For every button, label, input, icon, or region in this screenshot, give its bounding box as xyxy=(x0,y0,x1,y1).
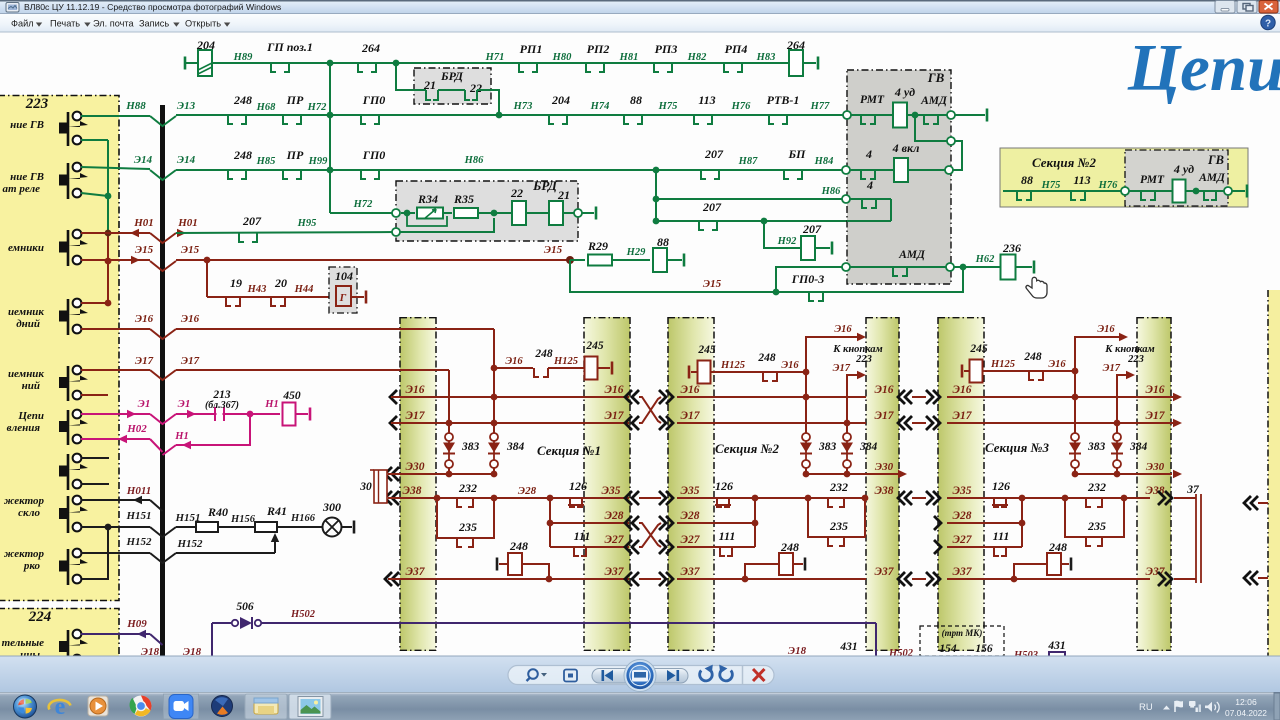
svg-text:Э14: Э14 xyxy=(177,154,196,166)
node 506 label xyxy=(236,601,254,613)
svg-text:(трт МК): (трт МК) xyxy=(942,628,983,638)
taskbar icon Chrome xyxy=(130,696,152,717)
svg-text:R41: R41 xyxy=(266,504,287,518)
junction 207 row x764 xyxy=(761,218,768,225)
svg-text:РП2: РП2 xyxy=(587,42,610,56)
loop 235 section3 xyxy=(1065,498,1124,546)
svg-text:248: 248 xyxy=(757,352,776,364)
wire Э16 row section1 xyxy=(390,384,629,404)
pin ГВ row4 right xyxy=(946,263,954,271)
node Н95 xyxy=(297,218,317,229)
menu Файл xyxy=(11,19,42,29)
pin ГВ row2 left xyxy=(842,166,850,174)
arrow Н1 return xyxy=(182,441,191,449)
label отключение ГВ возврат реле xyxy=(3,171,44,195)
svg-text:Э37: Э37 xyxy=(406,566,426,578)
switch SA3 токоприемники xyxy=(59,230,88,266)
svg-text:4: 4 xyxy=(865,147,872,161)
tray hidden icons arrow xyxy=(1163,706,1170,710)
viewer control band xyxy=(0,656,1280,693)
svg-text:Н1: Н1 xyxy=(264,399,278,410)
svg-text:Н011: Н011 xyxy=(126,485,151,497)
panel 223 (button board) xyxy=(0,95,119,601)
viewer play button xyxy=(624,660,656,692)
wire Э17 row section3 xyxy=(947,410,1182,427)
contact 248 (Э13 row) xyxy=(228,93,252,124)
svg-text:154: 154 xyxy=(939,643,957,655)
svg-text:Н86: Н86 xyxy=(464,155,484,166)
contact 232 section1 xyxy=(434,481,498,507)
resistor 88 with terminal xyxy=(653,235,684,272)
svg-text:Н76: Н76 xyxy=(731,101,751,112)
svg-text:111: 111 xyxy=(574,529,591,543)
band section3 left xyxy=(938,317,984,651)
node Н72 label (riser) xyxy=(353,199,373,210)
svg-text:Цепи: Цепи xyxy=(17,410,44,422)
svg-text:Э16: Э16 xyxy=(605,384,624,396)
svg-text:R35: R35 xyxy=(453,192,474,206)
svg-text:Э16: Э16 xyxy=(135,313,154,325)
band section1 left xyxy=(400,317,436,651)
svg-text:Н1: Н1 xyxy=(174,431,188,442)
contact 126 section1 xyxy=(547,479,587,507)
viewer zoom magnifier xyxy=(527,669,548,681)
node Н1 label xyxy=(264,399,278,410)
svg-text:Э17: Э17 xyxy=(875,410,895,422)
node Н77 xyxy=(810,101,830,112)
svg-text:Э1: Э1 xyxy=(138,398,151,410)
riser btn8-btn9 xyxy=(82,527,108,579)
svg-text:4 вкл: 4 вкл xyxy=(892,141,920,155)
band section3 right xyxy=(1137,317,1171,651)
svg-text:383: 383 xyxy=(1087,441,1106,453)
svg-text:236: 236 xyxy=(1002,241,1021,255)
panel 224 label xyxy=(28,609,52,625)
taskbar icon media player xyxy=(88,696,108,716)
link Э17 gap2 xyxy=(898,416,940,430)
svg-text:ГП0: ГП0 xyxy=(362,93,386,107)
wire Н09 row xyxy=(81,634,163,645)
node Н011 label xyxy=(126,485,151,497)
node Э15 label lower xyxy=(703,278,722,290)
svg-text:Э16: Э16 xyxy=(1048,359,1066,370)
node Н86 label right xyxy=(821,186,841,197)
svg-text:Н72: Н72 xyxy=(353,199,373,210)
wire Э14 row xyxy=(150,170,846,180)
connector 30 xyxy=(359,470,387,503)
svg-text:248: 248 xyxy=(1023,351,1042,363)
menu Открыть xyxy=(185,19,230,29)
svg-text:Секция №3: Секция №3 xyxy=(985,440,1049,455)
node Н80 xyxy=(552,52,572,63)
wire row A right segment xyxy=(330,62,816,64)
node Н09 label xyxy=(126,618,147,630)
panel 223 label xyxy=(25,96,49,112)
show desktop button xyxy=(1274,693,1280,720)
diode 383 section1 xyxy=(443,423,480,474)
node Н44 xyxy=(294,284,314,295)
wire Э30 row section1 xyxy=(385,461,497,481)
viewer rotate ccw xyxy=(700,665,713,681)
arrow Н02 xyxy=(118,435,127,443)
junction lower loop x776 xyxy=(773,289,780,296)
contact РП3 xyxy=(654,42,677,72)
contact РТВ-1 (Э13 row) xyxy=(767,93,800,124)
wire Н62 236 xyxy=(954,241,1034,280)
taskbar button Zoom xyxy=(164,694,199,719)
svg-text:113: 113 xyxy=(1073,173,1090,187)
svg-text:БП: БП xyxy=(788,147,807,161)
svg-text:245: 245 xyxy=(697,344,716,356)
external loop xyxy=(953,141,962,170)
svg-text:Э16: Э16 xyxy=(834,324,852,335)
menu bar xyxy=(0,14,1280,32)
coil 4 вкл xyxy=(892,141,945,182)
viewer next button xyxy=(667,670,679,681)
resistor R40 xyxy=(196,505,256,532)
box БРД lower (R34 R35 22 21) xyxy=(396,178,578,241)
node Н81 xyxy=(619,52,639,63)
svg-text:126: 126 xyxy=(715,479,733,493)
svg-text:Н87: Н87 xyxy=(738,156,758,167)
svg-text:Э38: Э38 xyxy=(403,485,422,497)
svg-text:88: 88 xyxy=(630,93,642,107)
arrow Э17 к кнопкам section3 xyxy=(1103,363,1135,423)
svg-text:Н77: Н77 xyxy=(810,101,830,112)
menu Запись xyxy=(139,19,180,29)
node Н87 xyxy=(738,156,758,167)
svg-text:вления: вления xyxy=(7,422,41,434)
svg-text:223: 223 xyxy=(1127,354,1144,365)
node Э17 feed labels xyxy=(135,355,200,367)
control bus (thick vertical) xyxy=(160,105,165,656)
wire Н152 row xyxy=(81,553,275,563)
svg-text:Э16: Э16 xyxy=(505,356,523,367)
svg-text:Э16: Э16 xyxy=(1146,384,1165,396)
svg-text:111: 111 xyxy=(993,529,1010,543)
node Н74 xyxy=(590,101,610,112)
wire row1 loop to row2 xyxy=(915,115,949,141)
svg-text:Э16: Э16 xyxy=(406,384,425,396)
resistor 264 right with terminal xyxy=(786,38,818,76)
wire Э1 row xyxy=(81,414,280,424)
contact 111 section1 xyxy=(574,529,591,556)
wire Н1 return xyxy=(163,414,251,455)
wire Э38-Э35 row section1 xyxy=(385,485,629,505)
svg-text:Н99: Н99 xyxy=(308,156,328,167)
svg-text:235: 235 xyxy=(1087,519,1106,533)
wire Э35-Э38 row section2 xyxy=(677,485,894,498)
crossover Э28/Э27 gap1 xyxy=(625,516,673,554)
contact 113 (Секция №2) xyxy=(1071,173,1091,200)
wire Н86 row (y199) xyxy=(653,170,846,221)
svg-text:ГП0: ГП0 xyxy=(362,148,386,162)
svg-text:ние ГВ: ние ГВ xyxy=(10,119,44,131)
svg-text:Э15: Э15 xyxy=(181,244,200,256)
junction Э13/riser x330 xyxy=(327,112,334,119)
band right edge strip xyxy=(1268,290,1280,656)
wire Н02 row xyxy=(81,439,163,452)
svg-text:Н68: Н68 xyxy=(256,102,276,113)
node Э15 label mid xyxy=(544,244,563,256)
heading Цепи (video title) xyxy=(1127,31,1280,105)
svg-text:232: 232 xyxy=(1087,480,1106,494)
svg-text:Э17: Э17 xyxy=(605,410,625,422)
svg-text:Н43: Н43 xyxy=(247,284,267,295)
wire Э35-Э38 row section3 xyxy=(947,485,1165,498)
link Э37 gap1 xyxy=(625,572,673,586)
contact ГП0 (Э13 row) xyxy=(361,93,385,124)
link Э38-Э35 gap2 xyxy=(898,491,940,505)
viewer prev button xyxy=(602,670,614,681)
svg-text:204: 204 xyxy=(196,38,215,52)
taskbar button Photo Viewer (active) xyxy=(289,694,331,719)
svg-text:Э27: Э27 xyxy=(681,534,701,546)
coil 4 уд (Секция №2) xyxy=(1173,162,1229,203)
svg-text:Э28: Э28 xyxy=(518,485,537,497)
svg-text:Н152: Н152 xyxy=(125,536,152,548)
node Н503 431 xyxy=(1013,640,1083,662)
svg-text:Э18: Э18 xyxy=(788,645,807,657)
node Н72 label xyxy=(307,102,327,113)
pin loop bottom xyxy=(945,166,953,174)
resistor 450 with terminal xyxy=(282,390,310,426)
svg-text:383: 383 xyxy=(461,441,480,453)
junction БРД x494 xyxy=(491,210,498,217)
viewer rotate cw xyxy=(719,665,732,681)
link Э37 gap2 xyxy=(898,572,940,586)
node Н156 xyxy=(230,514,256,525)
taskbar xyxy=(0,693,1280,720)
svg-text:384: 384 xyxy=(506,441,525,453)
node Н76 (Секция №2) xyxy=(1098,180,1118,191)
svg-text:Э13: Э13 xyxy=(177,100,196,112)
wire Э30 section2 xyxy=(803,461,907,478)
contact 232 section3 xyxy=(1062,480,1128,507)
svg-text:Н44: Н44 xyxy=(294,284,314,295)
label токоприемники xyxy=(8,242,44,254)
svg-text:Н75: Н75 xyxy=(1041,180,1061,191)
pin ГВ row4 left xyxy=(842,263,850,271)
svg-text:12:06: 12:06 xyxy=(1235,697,1257,707)
svg-text:Э16: Э16 xyxy=(953,384,972,396)
arrows Э1 xyxy=(127,410,196,418)
riser section3 x1075 xyxy=(1072,371,1079,437)
tray speaker icon xyxy=(1205,702,1219,713)
band section2 left xyxy=(668,317,714,651)
contact АМД (row1) xyxy=(920,95,948,124)
connector 37 xyxy=(1158,484,1201,586)
pin ГВ2 left xyxy=(1121,187,1129,195)
svg-text:Э16: Э16 xyxy=(875,384,894,396)
contact РМТ (Секция №2) xyxy=(1129,174,1172,200)
diode 384 section2 xyxy=(841,420,878,474)
svg-text:ний: ний xyxy=(22,380,40,392)
svg-text:Г: Г xyxy=(339,292,347,304)
branch 248 section2 (Э37) xyxy=(742,540,805,582)
svg-text:37: 37 xyxy=(1186,484,1200,496)
svg-text:Н29: Н29 xyxy=(626,247,646,258)
row A: resistor 204 with terminal xyxy=(185,38,330,76)
wire btn5 bottom stub xyxy=(81,394,108,396)
wire Э27 row section3 xyxy=(947,534,1022,547)
svg-text:Э28: Э28 xyxy=(953,510,972,522)
junction Э16/feed xyxy=(446,394,498,427)
wire 207 row (y221) xyxy=(653,218,891,225)
wire btn1 top to Н88 row xyxy=(81,115,150,117)
svg-text:88: 88 xyxy=(1021,173,1033,187)
node Н84 xyxy=(814,156,834,167)
contact 19 xyxy=(226,276,242,306)
svg-text:Н02: Н02 xyxy=(126,423,147,435)
panel 224 (button board) xyxy=(0,608,119,656)
wire Э27 row section2 xyxy=(677,534,755,547)
node Н88 label xyxy=(125,100,146,112)
node Э13 label xyxy=(177,100,196,112)
branch 19-20-104 row xyxy=(207,260,330,297)
branch 245 Н125 248 (section2) xyxy=(689,344,809,384)
svg-text:Н84: Н84 xyxy=(814,156,834,167)
junction row1 x915 xyxy=(912,112,919,119)
coil 4 уд xyxy=(893,85,951,128)
svg-text:Н92: Н92 xyxy=(777,236,797,247)
svg-text:Э35: Э35 xyxy=(953,485,972,497)
svg-text:Печать: Печать xyxy=(50,19,80,29)
node Э18 431 labels bottom xyxy=(788,641,914,659)
resistor 21 (БРД) xyxy=(549,188,578,225)
tray flag icon xyxy=(1175,701,1183,712)
junction row A x396 (БРД drop) xyxy=(393,60,400,67)
wire Э30 section3 xyxy=(1072,461,1182,478)
svg-text:232: 232 xyxy=(458,481,477,495)
tray clock xyxy=(1225,697,1267,718)
svg-text:207: 207 xyxy=(702,200,722,214)
node Н152 labels xyxy=(125,536,203,550)
node Н75 xyxy=(658,101,678,112)
box БРД top (contacts 21 22) xyxy=(396,63,502,118)
resistor R29 xyxy=(570,239,650,266)
svg-text:Н83: Н83 xyxy=(756,52,776,63)
section 2 caption xyxy=(715,441,779,456)
wire Э37 row section2 xyxy=(677,566,895,579)
node Н502 label xyxy=(290,609,316,620)
svg-text:R29: R29 xyxy=(587,239,608,253)
svg-text:R34: R34 xyxy=(417,192,438,206)
contact 126 section3 xyxy=(992,479,1010,507)
svg-text:RU: RU xyxy=(1139,702,1153,713)
svg-text:ГП0-3: ГП0-3 xyxy=(791,272,825,286)
wire Н011 row xyxy=(81,500,163,511)
wire Н01-207-Н95 row (green right) xyxy=(176,232,396,233)
svg-text:204: 204 xyxy=(551,93,570,107)
svg-text:Н01: Н01 xyxy=(177,217,198,229)
svg-text:Запись: Запись xyxy=(139,19,169,29)
svg-text:дний: дний xyxy=(16,318,40,330)
svg-text:иемник: иемник xyxy=(8,368,44,380)
label сигнальные машины xyxy=(2,637,44,661)
box ГВ (main switch panel) xyxy=(847,70,951,284)
box ГВ inner (top right) xyxy=(1125,150,1228,206)
taskbar icon globe player xyxy=(212,696,233,717)
contact 4 (row2) xyxy=(850,147,894,179)
svg-text:207: 207 xyxy=(242,214,262,228)
pin loop top xyxy=(947,137,955,145)
svg-text:Э37: Э37 xyxy=(875,566,895,578)
crossover Э16/Э17 gap1 xyxy=(625,390,673,430)
arrow Э17 к кнопкам section2 xyxy=(833,363,866,423)
svg-text:126: 126 xyxy=(992,479,1010,493)
branch 248 section3 (Э37) xyxy=(1011,540,1071,582)
junction Э14 x656 xyxy=(653,167,660,174)
node Н83 xyxy=(756,52,776,63)
svg-text:Н166: Н166 xyxy=(290,513,316,524)
switch SA7 xyxy=(59,454,88,490)
svg-text:Открыть: Открыть xyxy=(185,19,221,29)
start orb xyxy=(14,695,37,718)
svg-text:248: 248 xyxy=(509,539,528,553)
wire Э16 feed (btn4 to section1) xyxy=(150,329,494,437)
svg-text:Э28: Э28 xyxy=(681,510,700,522)
svg-text:Э15: Э15 xyxy=(544,244,563,256)
svg-text:Н95: Н95 xyxy=(297,218,317,229)
contact 4 (row3) xyxy=(847,178,891,221)
riser section3 x1022 xyxy=(1019,495,1026,547)
svg-text:Н89: Н89 xyxy=(233,52,253,63)
svg-text:Э14: Э14 xyxy=(134,154,153,166)
junction Э15/R29 x570 xyxy=(566,256,574,264)
node Э15 labels xyxy=(135,244,200,256)
pin ГВ row3 left xyxy=(842,195,850,203)
svg-text:ГВ: ГВ xyxy=(927,70,945,85)
svg-text:РП3: РП3 xyxy=(655,42,678,56)
svg-text:ние ГВ: ние ГВ xyxy=(10,171,44,183)
svg-text:ат реле: ат реле xyxy=(3,183,41,195)
stub right edge lower xyxy=(1244,571,1268,585)
svg-text:Э17: Э17 xyxy=(953,410,973,422)
svg-text:Э38: Э38 xyxy=(875,485,894,497)
pin БРД lower left bottom xyxy=(392,228,400,236)
wire btn4 top stub xyxy=(81,302,108,304)
wire btn3 top to Н01 row xyxy=(81,232,150,234)
wire btn4 bottom to Э16 row xyxy=(81,328,150,330)
menu Эл. почта xyxy=(93,19,135,29)
junction Э15 x207 xyxy=(204,257,211,264)
svg-text:Э35: Э35 xyxy=(681,485,700,497)
contact 88 (Э13 row) xyxy=(624,93,642,124)
svg-text:Э1: Э1 xyxy=(178,398,191,410)
window title bar xyxy=(0,0,1280,14)
wire Э18 bottom row xyxy=(176,657,1280,659)
svg-text:Н82: Н82 xyxy=(687,52,707,63)
svg-text:Н73: Н73 xyxy=(513,101,533,112)
branch 245 Н125 248 (section3) xyxy=(962,343,1078,383)
loop 235 section2 xyxy=(808,498,865,546)
svg-text:Н86: Н86 xyxy=(821,186,841,197)
junction АМД x963 xyxy=(960,264,967,271)
svg-text:Э17: Э17 xyxy=(1103,363,1121,374)
svg-text:Э17: Э17 xyxy=(406,410,426,422)
menu Печать xyxy=(50,19,91,29)
svg-text:20: 20 xyxy=(274,276,287,290)
svg-text:ГП поз.1: ГП поз.1 xyxy=(266,40,313,54)
svg-text:Н71: Н71 xyxy=(485,52,505,63)
svg-text:Э17: Э17 xyxy=(135,355,154,367)
svg-text:Н125: Н125 xyxy=(720,360,745,371)
svg-text:156: 156 xyxy=(975,643,993,655)
svg-text:248: 248 xyxy=(780,540,799,554)
contact РМТ (row1) xyxy=(851,94,893,124)
svg-text:Н85: Н85 xyxy=(256,156,276,167)
